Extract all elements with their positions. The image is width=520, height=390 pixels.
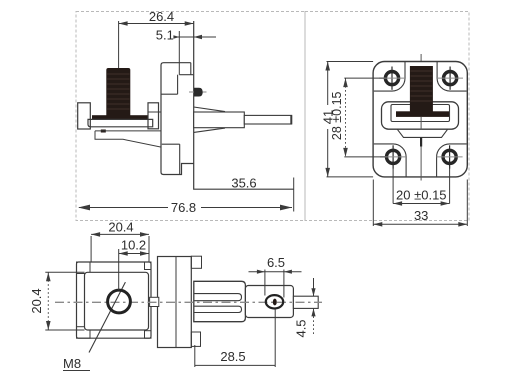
svg-text:10.2: 10.2 xyxy=(121,237,146,252)
svg-text:M8: M8 xyxy=(63,356,81,371)
svg-text:33: 33 xyxy=(414,208,428,223)
svg-text:20 ±0.15: 20 ±0.15 xyxy=(396,188,447,203)
svg-text:28.5: 28.5 xyxy=(220,349,245,364)
svg-text:26.4: 26.4 xyxy=(149,9,174,24)
svg-text:28 ±0.15: 28 ±0.15 xyxy=(330,91,344,140)
svg-text:20.4: 20.4 xyxy=(29,288,44,313)
svg-text:4.5: 4.5 xyxy=(294,319,309,337)
svg-text:5.1: 5.1 xyxy=(156,27,174,42)
svg-text:35.6: 35.6 xyxy=(231,175,256,190)
svg-text:76.8: 76.8 xyxy=(171,200,196,215)
svg-text:6.5: 6.5 xyxy=(267,255,285,270)
svg-text:20.4: 20.4 xyxy=(108,220,133,235)
